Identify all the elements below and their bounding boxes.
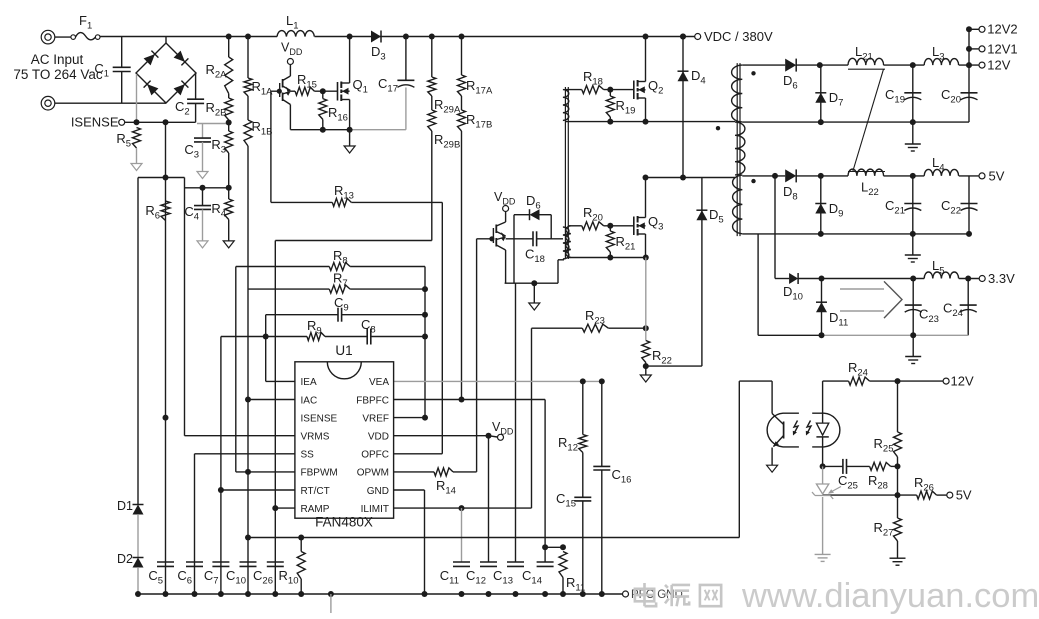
svg-text:D1: D1 (117, 499, 133, 513)
svg-text:12V2: 12V2 (987, 22, 1017, 37)
svg-text:D2: D2 (117, 552, 133, 566)
svg-text:75 TO 264 Vac: 75 TO 264 Vac (13, 67, 103, 82)
svg-text:12V: 12V (987, 58, 1010, 73)
svg-text:VEA: VEA (369, 377, 389, 388)
svg-text:VDD: VDD (368, 432, 389, 443)
svg-text:FBPWM: FBPWM (301, 468, 338, 479)
svg-text:ISENSE: ISENSE (301, 413, 338, 424)
svg-text:3.3V: 3.3V (988, 271, 1015, 286)
svg-text:ILIMIT: ILIMIT (361, 504, 389, 515)
svg-text:FBPFC: FBPFC (356, 395, 389, 406)
svg-text:OPWM: OPWM (357, 468, 389, 479)
svg-text:SS: SS (301, 450, 315, 461)
svg-text:AC Input: AC Input (31, 52, 84, 67)
svg-text:12V: 12V (951, 374, 974, 389)
svg-text:RT/CT: RT/CT (301, 486, 330, 497)
svg-text:5V: 5V (956, 488, 972, 503)
svg-text:5V: 5V (989, 168, 1005, 183)
svg-text:RAMP: RAMP (301, 504, 330, 515)
svg-text:www.dianyuan.com: www.dianyuan.com (741, 577, 1039, 614)
svg-text:OPFC: OPFC (361, 450, 389, 461)
svg-text:U1: U1 (335, 343, 352, 358)
svg-text:GND: GND (367, 486, 389, 497)
svg-text:VDC / 380V: VDC / 380V (704, 29, 773, 44)
svg-text:12V1: 12V1 (987, 41, 1017, 56)
svg-text:IAC: IAC (301, 395, 318, 406)
svg-text:FAN480X: FAN480X (315, 515, 373, 530)
svg-text:IEA: IEA (301, 377, 317, 388)
svg-text:VRMS: VRMS (301, 432, 330, 443)
svg-text:VREF: VREF (362, 413, 389, 424)
svg-text:ISENSE: ISENSE (71, 115, 119, 130)
